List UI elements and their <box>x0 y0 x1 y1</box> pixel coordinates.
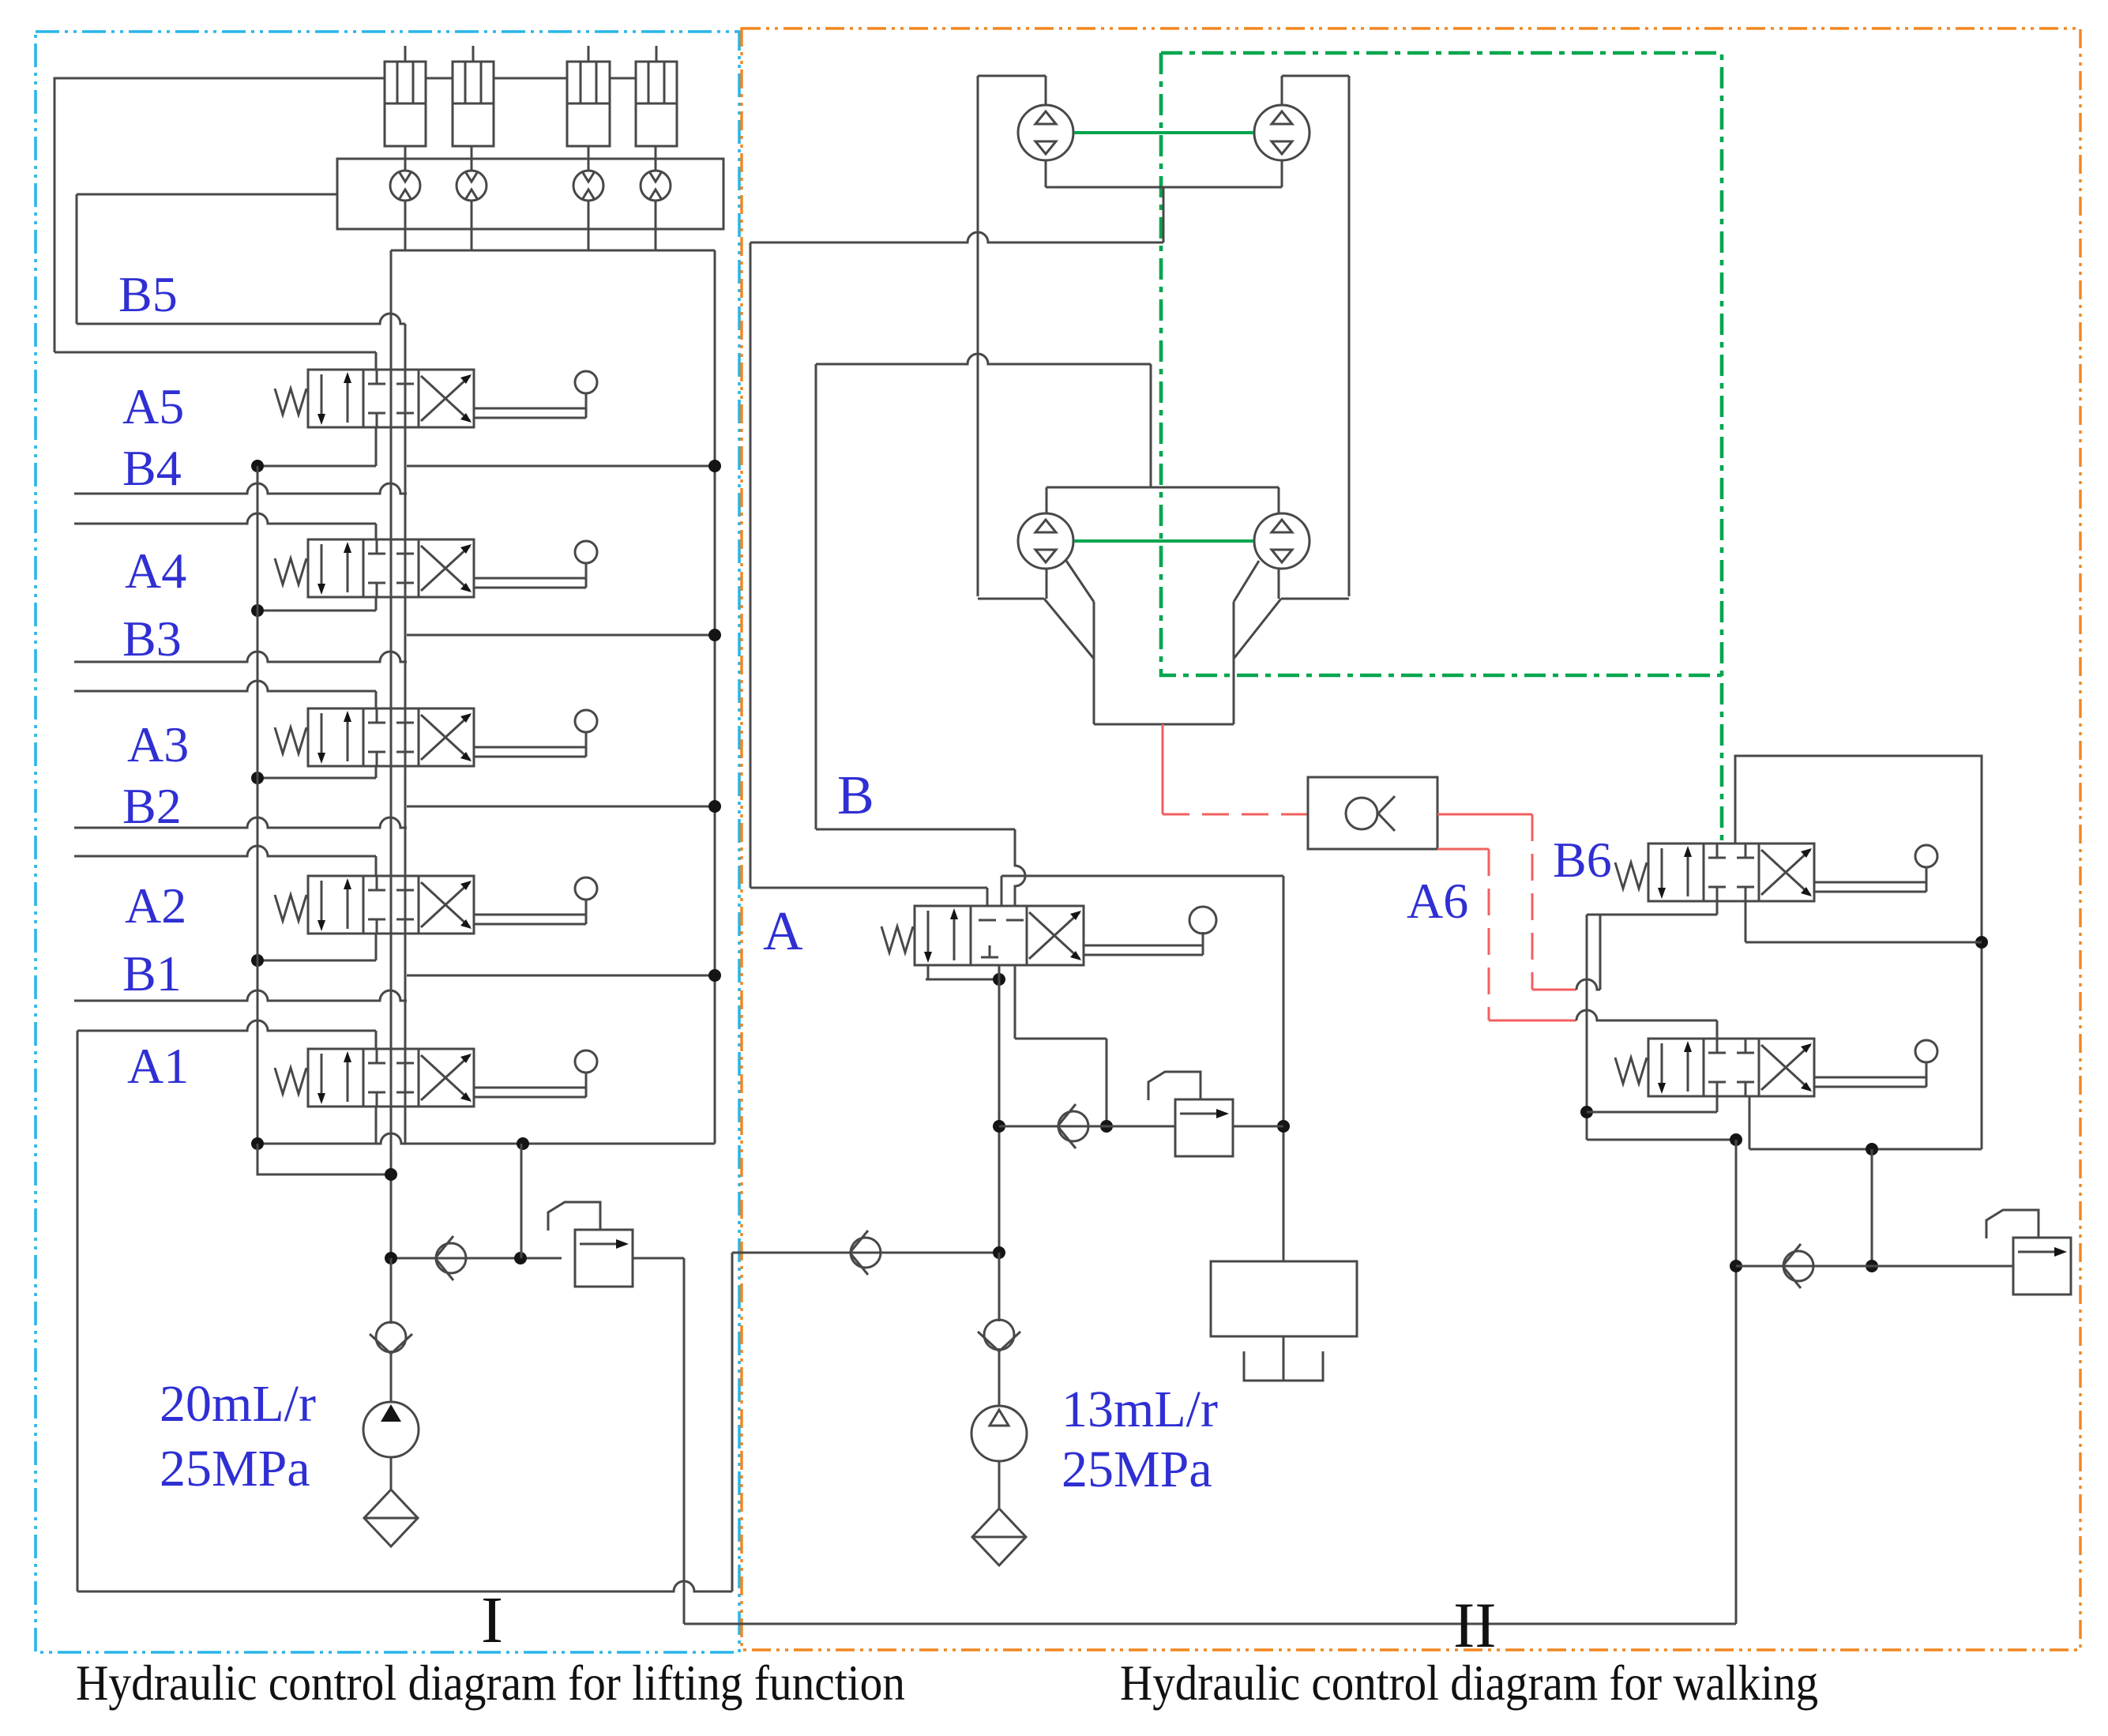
svg-text:25MPa: 25MPa <box>1062 1441 1212 1498</box>
svg-text:A1: A1 <box>127 1038 189 1094</box>
svg-text:B4: B4 <box>122 440 182 496</box>
svg-text:B2: B2 <box>122 778 182 834</box>
svg-text:B3: B3 <box>122 611 182 667</box>
svg-text:B5: B5 <box>118 266 178 322</box>
svg-text:Hydraulic control diagram for: Hydraulic control diagram for lifting fu… <box>76 1655 905 1711</box>
svg-text:20mL/r: 20mL/r <box>160 1375 316 1433</box>
svg-text:A6: A6 <box>1407 873 1468 929</box>
svg-text:I: I <box>481 1584 503 1657</box>
svg-text:A2: A2 <box>125 877 186 934</box>
svg-text:B1: B1 <box>122 945 182 1001</box>
svg-text:II: II <box>1453 1589 1497 1661</box>
svg-text:A: A <box>763 901 803 962</box>
svg-text:Hydraulic control diagram for: Hydraulic control diagram for walking <box>1120 1655 1818 1711</box>
svg-text:B: B <box>837 765 874 826</box>
svg-text:A3: A3 <box>127 716 189 772</box>
svg-text:25MPa: 25MPa <box>160 1440 310 1497</box>
svg-text:B6: B6 <box>1553 832 1612 888</box>
svg-text:A5: A5 <box>122 378 184 434</box>
svg-text:13mL/r: 13mL/r <box>1062 1381 1218 1438</box>
svg-text:A4: A4 <box>125 543 186 599</box>
